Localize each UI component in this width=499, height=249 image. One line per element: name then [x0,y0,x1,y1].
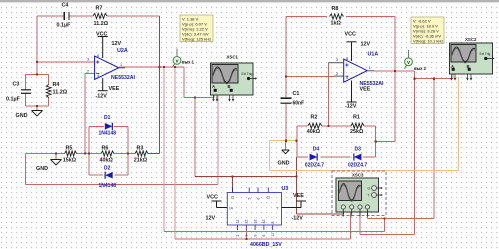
resistor R4 [46,82,67,98]
wire U1A output net to XSC2 [374,71,453,79]
diode D1 1N4148 [99,115,117,137]
svg-text:0.1µF: 0.1µF [57,23,72,29]
svg-text:-12V: -12V [96,94,108,100]
svg-text:2: 2 [87,70,89,74]
capacitor C4 [57,2,72,28]
svg-text:R8: R8 [332,6,339,12]
op-amp U1A [328,52,384,88]
svg-text:T: T [368,194,370,198]
capacitor C1 [281,91,305,107]
wire R8 feedback loop [286,17,395,142]
svg-text:12V: 12V [206,216,216,222]
svg-text:V(freq): 125 kHz: V(freq): 125 kHz [182,37,211,42]
wire bus from output node to XSC3 channel-B [175,67,351,239]
oscilloscope XSC1 [211,55,257,102]
svg-text:NE5532AI: NE5532AI [111,75,135,81]
wire node-A vertical to non-inverting input of U2A [37,16,95,75]
svg-text:1N4148: 1N4148 [99,131,117,137]
svg-text:3Z: 3Z [253,220,257,224]
svg-text:4: 4 [97,74,99,78]
svg-text:02DZ4.7: 02DZ4.7 [348,163,367,169]
wire U2A output net [119,66,184,68]
svg-text:4066BD_15V: 4066BD_15V [250,242,282,248]
wire top Wien-bridge feedback net [37,16,160,154]
probe data box 1 [180,15,213,42]
svg-text:XSC3: XSC3 [352,172,364,177]
svg-text:XSC2: XSC2 [465,37,477,42]
ground GND zener network [278,150,290,167]
svg-text:GND: GND [36,166,48,172]
svg-text:Ext Trig: Ext Trig [480,52,491,56]
wire XSC3 channel-C to output-2 node [360,79,415,235]
wire D1 parallel branch frame [89,126,128,153]
svg-text:6: 6 [262,235,266,237]
svg-text:6: 6 [256,198,260,200]
oscilloscope XSC2 [450,37,495,80]
svg-text:C1: C1 [293,91,300,97]
svg-text:13: 13 [231,196,235,200]
resistor R2 [307,114,322,135]
svg-text:40kΩ: 40kΩ [100,157,114,163]
wire XSC3 channel-D link [368,79,435,219]
svg-text:1Z: 1Z [236,220,240,224]
wire XSC1 channel-A feed [184,67,297,193]
svg-text:4: 4 [346,76,348,80]
svg-text:15kΩ: 15kΩ [63,157,77,163]
svg-text:GND: GND [278,161,290,167]
power VCC of U2A [96,31,121,58]
svg-text:3: 3 [245,235,249,237]
resistor R3 [134,145,148,163]
wire C3-R4 parallel tank frame [26,75,49,111]
svg-text:R6: R6 [102,145,109,151]
diode D2 1N4148 [99,165,117,189]
wire D2 parallel branch frame [89,154,128,176]
svg-text:1: 1 [369,66,371,70]
analog switch U3 4066BD_15V [227,186,288,248]
ground GND tank [16,111,43,120]
svg-text:1kΩ: 1kΩ [331,21,342,27]
probe PR1 output-1 [173,49,195,67]
probe data box 2 [411,17,444,44]
power VCC of U1A [345,32,371,61]
op-amp U2A [87,48,135,81]
svg-text:XSC1: XSC1 [227,55,239,60]
svg-text:21kΩ: 21kΩ [134,157,148,163]
svg-text:12: 12 [267,196,271,200]
svg-text:вых 2: вых 2 [414,66,427,71]
power VCC of U3 [206,194,228,221]
svg-text:25kΩ: 25kΩ [350,129,364,135]
svg-text:7: 7 [277,207,279,211]
svg-text:U1A: U1A [368,52,379,58]
resistor R7 [93,6,109,28]
wire bus from output node down to XSC3 area [164,67,385,232]
wire U3 switch pin to bus [245,230,247,239]
resistor R8 [330,6,344,27]
svg-text:12V: 12V [361,41,371,47]
svg-text:8: 8 [271,222,275,224]
capacitor C3 [6,82,31,103]
wire orange XSC2 A-minus to ground net [269,77,458,171]
resistor R1 [350,114,364,135]
svg-text:3: 3 [336,58,338,62]
svg-text:2: 2 [336,72,338,76]
svg-text:40kΩ: 40kΩ [307,129,321,135]
svg-text:2Z: 2Z [245,220,249,224]
svg-text:11: 11 [271,233,275,237]
resistor R6 [100,145,115,163]
wire ground tap of zener network [286,141,297,150]
svg-text:8: 8 [346,57,348,61]
svg-text:R2: R2 [311,114,318,120]
svg-text:V(freq): 10.1 kHz: V(freq): 10.1 kHz [413,39,443,44]
oscilloscope XSC3 with selection box [332,171,386,217]
svg-text:1N4148: 1N4148 [99,183,117,189]
wire zener network left leg down to XSC3 channel-A [297,157,344,214]
svg-text:02DZ4.7: 02DZ4.7 [305,163,324,169]
wire U1A inverting input [286,75,334,77]
svg-text:11.2Ω: 11.2Ω [53,90,68,96]
svg-text:U3: U3 [282,186,289,192]
svg-text:D2: D2 [104,165,111,171]
svg-text:4Z: 4Z [262,220,266,224]
svg-text:D1: D1 [104,115,111,121]
svg-text:VCC: VCC [207,194,218,200]
svg-text:1: 1 [120,63,122,67]
svg-text:VEE: VEE [360,86,371,92]
svg-text:0.1µF: 0.1µF [6,97,21,103]
wire U2A inverting input feedback [85,74,95,154]
svg-text:R3: R3 [137,145,144,151]
svg-text:9: 9 [253,235,257,237]
power VEE of U3 [282,193,307,222]
svg-text:-12V: -12V [345,103,357,109]
svg-text:R7: R7 [96,6,103,12]
svg-text:R4: R4 [53,82,60,88]
zener diode D3 02DZ4.7 [348,147,367,169]
wire R2-R1 zener network frame [297,63,376,157]
svg-text:8: 8 [97,54,99,58]
zener diode D4 02DZ4.7 [305,147,324,169]
svg-text:60nF: 60nF [293,101,305,107]
svg-text:C4: C4 [62,2,69,8]
svg-text:2: 2 [236,235,240,237]
svg-text:VEE: VEE [293,193,304,199]
svg-text:R5: R5 [66,145,73,151]
svg-text:11.2Ω: 11.2Ω [94,21,109,27]
svg-text:5: 5 [248,198,252,200]
power VEE of U1A [345,76,371,109]
svg-text:Ext Trig: Ext Trig [242,72,253,76]
svg-text:D4: D4 [313,147,320,153]
svg-text:12V: 12V [112,41,122,47]
svg-text:VCC: VCC [345,32,356,38]
wire lower-left return bus to scope A-minus [25,96,218,185]
svg-text:VEE: VEE [109,86,120,92]
wire R5-R6-R3 string [25,153,135,155]
svg-text:D3: D3 [355,147,362,153]
probe PR2 output-2 [405,50,427,71]
svg-text:R1: R1 [353,114,360,120]
ground GND at R5 [36,160,62,173]
wire ground stub at R5 left [55,154,57,160]
svg-text:14: 14 [229,207,233,211]
svg-text:B: B [228,84,231,89]
resistor R5 [63,145,77,163]
svg-text:GND: GND [16,113,28,119]
svg-text:вых 1: вых 1 [182,60,195,65]
svg-text:-12V: -12V [292,216,304,222]
svg-text:U2A: U2A [117,48,128,54]
power VEE of U2A [96,74,120,100]
wire C1 branch [285,76,287,140]
svg-text:A: A [212,84,215,89]
svg-text:3: 3 [87,58,89,62]
svg-text:C3: C3 [13,82,20,88]
